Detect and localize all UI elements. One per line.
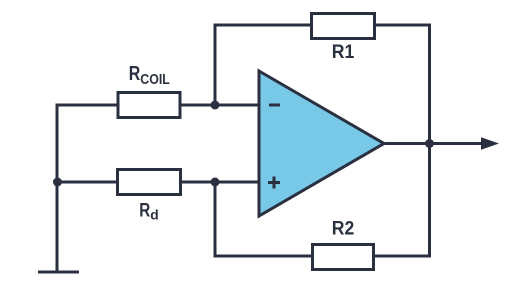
wire Rd right segment to non-inverting input bbox=[181, 181, 259, 184]
svg-text:R1: R1 bbox=[332, 42, 355, 63]
op-amp U1 bbox=[259, 71, 384, 216]
svg-text:R2: R2 bbox=[332, 219, 355, 240]
node output junction bbox=[425, 139, 434, 148]
svg-text:Rd: Rd bbox=[139, 201, 158, 223]
wire Rcoil right segment to inverting input bbox=[180, 104, 259, 107]
resistor RCOIL bbox=[118, 93, 180, 118]
wire right vertical feedback bbox=[428, 24, 431, 258]
wire top horizontal left segment bbox=[214, 24, 313, 27]
output arrow bbox=[481, 137, 499, 149]
op-amp non-inverting pin marker (plus) bbox=[268, 177, 280, 189]
wire vertical from non-inverting node down to bottom feedback bbox=[214, 182, 217, 258]
wire top horizontal right segment bbox=[374, 24, 431, 27]
node left input junction bbox=[53, 178, 62, 187]
resistor R1 bbox=[312, 14, 375, 39]
wire output from op-amp bbox=[382, 142, 484, 145]
node non-inverting input junction bbox=[211, 178, 220, 187]
wire bottom horizontal left segment bbox=[214, 255, 314, 258]
resistor R2 bbox=[313, 245, 374, 270]
wire vertical from inverting node up to top feedback bbox=[214, 24, 217, 106]
wire Rcoil left segment bbox=[56, 104, 119, 107]
wire Rd left segment bbox=[56, 181, 119, 184]
node inverting input junction bbox=[211, 101, 220, 110]
ground bbox=[38, 271, 79, 274]
svg-text:RCOIL: RCOIL bbox=[129, 63, 170, 88]
wire bottom horizontal right segment bbox=[374, 255, 431, 258]
wire left vertical (input node to ground) bbox=[56, 104, 59, 273]
resistor Rd bbox=[118, 170, 181, 195]
op-amp inverting pin marker (minus) bbox=[269, 104, 280, 107]
